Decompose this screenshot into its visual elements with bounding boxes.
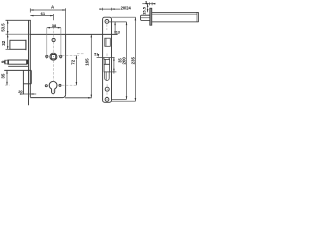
- extension line B (aux box top): [4, 69, 31, 71]
- bar top: [152, 11, 199, 13]
- svg-text:200: 200: [121, 57, 126, 65]
- arrows dim A: [30, 9, 33, 11]
- dim 13 vline: [114, 22, 116, 35]
- svg-text:32: 32: [1, 40, 6, 46]
- ticks: [102, 8, 104, 11]
- deadbolt bold bar at faceplate: [27, 60, 29, 65]
- arrows dim 35: [6, 70, 8, 73]
- front view: faceplate top edge: [6, 19, 31, 21]
- arrows dim 3: [146, 3, 149, 5]
- svg-text:13: 13: [116, 31, 120, 35]
- latch mid line: [141, 17, 150, 19]
- dim 61 right tick: [52, 14, 54, 20]
- svg-text:35: 35: [1, 73, 6, 79]
- line 51 anchor across plate: [97, 57, 115, 59]
- dim 15.5 vline: [147, 4, 149, 13]
- vertical axis centerline segments: [52, 27, 54, 39]
- cylinder left screw hole: [45, 85, 47, 87]
- follower center ext stub: [58, 54, 79, 56]
- svg-text:72: 72: [70, 59, 75, 64]
- dim 20 line: [21, 93, 37, 95]
- stub right lower: [109, 71, 116, 73]
- arrows dim 165: [91, 34, 93, 37]
- follower circle: [50, 53, 57, 60]
- front view: faceplate left edge: [28, 20, 30, 105]
- follower right screw hole: [60, 55, 62, 57]
- front view: case top edge (extends to right dims): [30, 33, 117, 35]
- dim texts front: [0, 4, 89, 94]
- aux box right edge: [30, 70, 32, 83]
- dim A left tick: [29, 8, 31, 12]
- small top hole: [52, 38, 55, 41]
- faceplate outline: [103, 17, 112, 102]
- dim 3 line: [142, 3, 155, 5]
- arrows dim 9: [4, 60, 6, 63]
- arrows dim 72: [76, 55, 78, 58]
- latch cutout: [105, 38, 111, 46]
- arrows 13: [114, 22, 116, 25]
- cutout neck left: [103, 58, 105, 60]
- cylinder right screw hole: [59, 84, 61, 86]
- svg-text:61: 61: [41, 11, 46, 16]
- follower center dot: [52, 55, 55, 58]
- dim 35 vline: [6, 70, 8, 85]
- arrows small dim right: [113, 58, 115, 61]
- arrows 235: [135, 17, 137, 20]
- aux slot inner line: [105, 72, 107, 80]
- svg-text:3: 3: [145, 0, 147, 4]
- left hole witness line: [46, 28, 48, 59]
- deadbolt bold left cap: [7, 60, 10, 64]
- follower square hole: [51, 55, 55, 59]
- ticks dim 3: [149, 2, 151, 5]
- cylinder hole edge view: [105, 87, 109, 91]
- line below deadbolt: [8, 65, 28, 67]
- right hole witness line: [60, 28, 62, 59]
- ext faceplate top: [112, 16, 136, 18]
- front view: case right edge: [65, 34, 67, 94]
- bolt cutout: [104, 59, 110, 64]
- ext top screw center: [109, 21, 127, 23]
- latch head side view: [141, 15, 150, 20]
- cylinder center ext right: [58, 84, 77, 86]
- svg-text:20: 20: [18, 89, 22, 94]
- dim 38 line: [47, 27, 61, 29]
- arrow 165 bottom: [88, 97, 91, 99]
- svg-text:15.5: 15.5: [142, 6, 147, 15]
- front view: case bottom edge with rounded corner: [30, 95, 65, 98]
- dim 53.5 vline: [7, 20, 9, 34]
- dim 235 vline: [134, 17, 136, 101]
- faceplate section body: [150, 8, 152, 25]
- svg-text:A: A: [51, 4, 55, 9]
- dim A line: [30, 9, 65, 11]
- ext latch bottom left: [6, 48, 10, 50]
- dim 61 line: [30, 15, 53, 17]
- stub at 53.8: [77, 53, 85, 55]
- front view: faceplate right edge: [29, 20, 31, 97]
- dim 32 vline: [7, 34, 9, 49]
- cylinder keyhole profile: [49, 81, 57, 93]
- arrows 200: [126, 22, 128, 25]
- top screw hole: [105, 20, 109, 24]
- dim 20/24 line: [100, 8, 120, 10]
- svg-text:235: 235: [131, 56, 136, 64]
- bar end cap: [197, 12, 199, 22]
- cutout neck right: [108, 58, 110, 60]
- ext bottom screw center: [112, 98, 127, 100]
- bolt cutout inner line: [104, 59, 106, 64]
- arrows dim 20: [20, 93, 23, 95]
- latch faceplate cutout line: [25, 40, 27, 50]
- bar inner top: [152, 13, 197, 15]
- ext faceplate bottom: [112, 100, 136, 102]
- arrows dim 61: [30, 15, 33, 17]
- dim 165 vline: [90, 34, 92, 98]
- svg-text:38: 38: [52, 23, 57, 28]
- dim 9 vline and ticks: [4, 60, 6, 64]
- bar bottom: [152, 21, 199, 23]
- small dim vline right: [113, 58, 115, 74]
- dim A right witness: [65, 8, 67, 34]
- follower left screw hole: [46, 55, 48, 57]
- arrow 51 leader: [98, 54, 100, 57]
- edge view centerline segments: [106, 24, 108, 30]
- arrows dim 15.5: [147, 4, 149, 7]
- dim 200 vline: [126, 22, 128, 100]
- arrows dim 53.5: [7, 20, 9, 23]
- aux box left edge: [22, 70, 24, 94]
- bottom screw hole: [105, 98, 109, 102]
- extension line: case bottom to 165 dim: [65, 97, 92, 99]
- aux box bottom: [23, 83, 31, 85]
- arrows dim 38: [47, 27, 50, 29]
- aux slot cutout (U shape): [105, 72, 110, 81]
- arrows 20/24: [99, 8, 102, 10]
- lower cutout extension: [104, 64, 109, 72]
- latch head rectangle: [10, 40, 26, 49]
- cylinder center ext left stub: [5, 84, 10, 86]
- svg-text:20/24: 20/24: [121, 5, 132, 10]
- dim 72 vline: [75, 55, 77, 85]
- deadbolt head rectangle: [8, 60, 27, 64]
- svg-text:165: 165: [84, 58, 89, 66]
- svg-text:53.5: 53.5: [1, 23, 6, 32]
- svg-text:51: 51: [94, 52, 98, 56]
- ext case top left: [6, 33, 31, 35]
- arrows dim 32: [7, 34, 9, 37]
- latch cutout inner line: [105, 38, 107, 46]
